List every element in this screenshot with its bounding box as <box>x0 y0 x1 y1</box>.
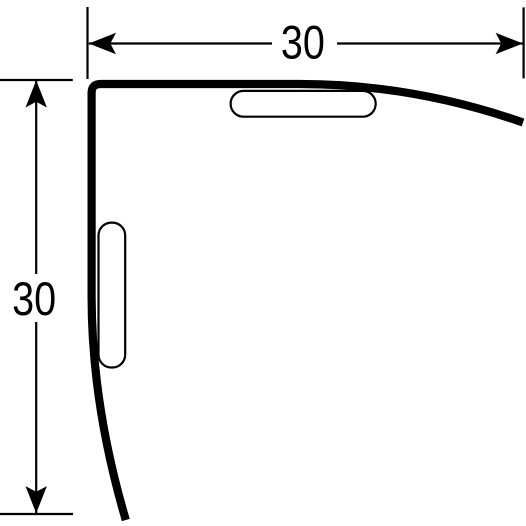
extension line left vertical (top dim) <box>86 7 88 79</box>
arrowhead top-left <box>89 33 116 54</box>
dimension line left, bottom segment <box>35 322 37 513</box>
arrowhead top-right <box>496 33 523 54</box>
angle profile body <box>92 84 523 520</box>
arrowhead left-top (up) <box>26 80 47 107</box>
dimension line top, right segment <box>337 42 523 44</box>
dimension line top, left segment <box>89 42 272 44</box>
slot hole left (stadium) <box>99 223 126 368</box>
extension line right vertical (top dim) <box>522 7 524 78</box>
svg-text:30: 30 <box>281 17 325 70</box>
arrowhead left-bottom (down) <box>26 486 47 513</box>
dimension line left, top segment <box>35 80 37 274</box>
svg-text:30: 30 <box>12 273 56 326</box>
extension line top horizontal (left dim) <box>0 79 73 81</box>
extension line bottom horizontal (left dim) <box>0 513 73 515</box>
slot hole top (stadium) <box>231 91 376 117</box>
